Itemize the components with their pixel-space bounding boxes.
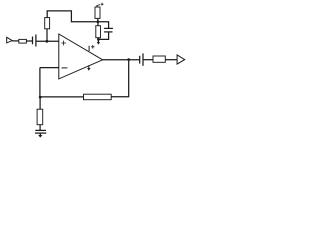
resistor R1 — [19, 39, 27, 43]
resistor R7 — [37, 109, 43, 125]
label + input — [61, 41, 66, 46]
wire — [40, 96, 83, 98]
wire — [39, 97, 41, 109]
wire — [39, 125, 41, 131]
wire — [36, 40, 59, 42]
output port OUT — [177, 55, 185, 64]
junction node B — [97, 20, 100, 23]
ground GND3 — [39, 133, 41, 135]
wire — [143, 59, 153, 61]
label - input — [62, 67, 68, 69]
junction node D — [39, 96, 42, 99]
resistor R2 — [45, 18, 50, 29]
wire — [97, 18, 99, 21]
pin V- stub — [88, 65, 90, 68]
input port IN — [7, 37, 13, 43]
resistor R3 — [95, 7, 100, 18]
capacitor C3 — [139, 56, 141, 64]
capacitor C2 — [104, 27, 113, 29]
wire — [111, 60, 129, 97]
resistor R5 — [153, 56, 165, 62]
wire — [97, 38, 99, 40]
ground GND1 — [97, 39, 99, 42]
junction node C — [97, 38, 100, 41]
resistor R6 — [84, 94, 112, 100]
wire — [47, 11, 98, 22]
wire — [97, 22, 99, 26]
wire — [12, 40, 19, 42]
junction node OUT — [127, 58, 130, 61]
wire — [103, 59, 140, 61]
resistor R4 — [96, 26, 101, 38]
capacitor C4 — [35, 129, 46, 131]
wire — [40, 67, 59, 69]
wire — [39, 68, 41, 98]
ground GND2 — [87, 68, 90, 71]
wire — [98, 22, 109, 29]
supply V+ — [96, 5, 98, 7]
junction node A — [46, 40, 49, 43]
pin V+ stub — [88, 46, 90, 51]
wire — [46, 29, 48, 42]
capacitor C1 — [32, 37, 34, 45]
label + supply — [91, 45, 94, 49]
wire — [165, 59, 177, 61]
op-amp U1 — [59, 34, 103, 79]
wire — [98, 32, 108, 40]
wire — [26, 40, 32, 42]
